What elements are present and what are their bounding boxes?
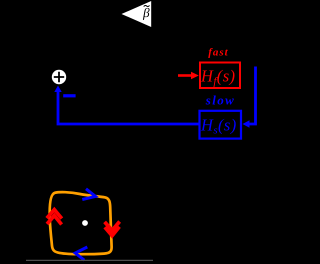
label beta-tilde <box>143 8 150 20</box>
wire: input arrow into Hf <box>178 74 192 77</box>
arrowhead into Hf <box>191 72 199 80</box>
slow arrow (blue, top edge, rightward) <box>82 189 95 200</box>
limit cycle loop (orange) <box>50 192 112 254</box>
axis baseline (grey) <box>26 259 153 261</box>
minus sign at summing junction <box>63 94 75 97</box>
svg-text:fast: fast <box>208 47 229 59</box>
wire: feedback from Hs output to summer <box>58 89 199 124</box>
amplifier triangle (gain block) <box>122 1 152 27</box>
equilibrium point (white dot) <box>82 220 88 226</box>
fast arrows (red, left edge, up) <box>47 210 62 225</box>
arrowhead into Hs <box>243 120 250 128</box>
svg-text:slow: slow <box>205 93 235 108</box>
summing junction <box>52 70 66 84</box>
svg-text:Hs(s): Hs(s) <box>200 116 237 137</box>
slow arrow (blue, bottom edge, leftward) <box>75 247 87 260</box>
arrowhead into summer <box>54 86 61 93</box>
svg-text:Hf(s): Hf(s) <box>200 67 235 88</box>
block Hs(s) (slow compensator) <box>200 111 242 139</box>
wire: into Hs from output tap <box>247 67 256 125</box>
block Hf(s) (fast compensator) <box>200 63 240 89</box>
fast arrows (red, right edge, down) <box>105 222 120 236</box>
